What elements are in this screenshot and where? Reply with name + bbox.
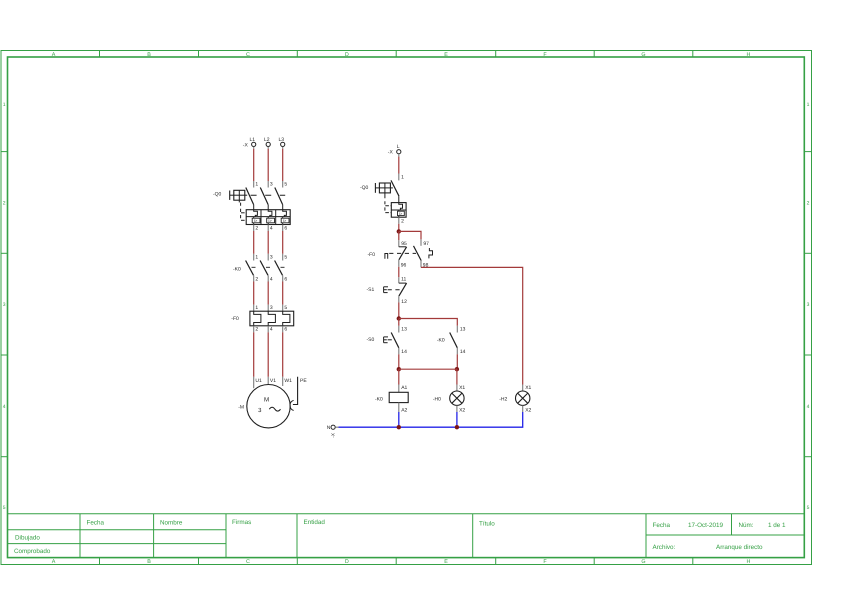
contactor coil -K0 (389, 392, 408, 402)
svg-text:1: 1 (255, 254, 258, 260)
wire -H0 X2 to N rail (456, 405, 458, 427)
wire -S1 12 to node B (398, 302, 400, 318)
contactor -K0 pin labels 2,4,6 (255, 277, 287, 283)
wire -K0 pin 6 to -F0 pin 5 (282, 275, 284, 311)
-S0 pushbutton actuator E (384, 337, 395, 343)
svg-text:4: 4 (270, 326, 273, 332)
svg-text:2: 2 (401, 219, 404, 225)
node D junction dot (455, 367, 459, 371)
svg-text:-S1: -S1 (367, 287, 375, 293)
svg-text:Arranque directo: Arranque directo (716, 544, 763, 551)
svg-text:-H2: -H2 (499, 397, 507, 403)
svg-text:14: 14 (460, 349, 466, 355)
svg-text:4: 4 (3, 404, 6, 410)
breaker -Q0 pole 3 contact blade (275, 188, 283, 210)
wire -K0 14 to node D (456, 354, 458, 369)
svg-text:H: H (747, 559, 751, 565)
wire -F0 96 to -S1 11 (398, 267, 400, 283)
svg-text:D: D (345, 52, 349, 58)
svg-text:-K0: -K0 (233, 266, 241, 272)
svg-text:N: N (327, 425, 331, 431)
svg-text:E: E (444, 559, 448, 565)
terminal -X L1 (250, 137, 256, 149)
wire node A to -F0 pin 95 (398, 231, 400, 240)
svg-text:Firmas: Firmas (232, 519, 251, 526)
node E junction dot (coil on N rail) (397, 425, 401, 429)
svg-text:1: 1 (255, 305, 258, 311)
svg-text:-Q0: -Q0 (360, 185, 369, 191)
svg-text:3: 3 (270, 254, 273, 260)
breaker -Q0 pin labels 1,3,5 (255, 182, 287, 188)
wire coil A2 to N rail (398, 403, 400, 428)
svg-text:-F0: -F0 (231, 316, 239, 322)
terminal -X L (control) (397, 144, 401, 157)
svg-text:2: 2 (807, 201, 810, 207)
svg-text:2: 2 (255, 226, 258, 232)
svg-text:4: 4 (807, 404, 810, 410)
svg-text:5: 5 (3, 505, 6, 511)
svg-text:-S0: -S0 (367, 337, 375, 343)
svg-text:X2: X2 (459, 408, 465, 414)
motor lead stubs U1 V1 W1 (254, 377, 283, 388)
contactor -K0 pole 3 contact (275, 261, 285, 276)
breaker -Q0 pole 1 contact blade (246, 188, 254, 210)
-F0 NC contact 95-96 (399, 240, 407, 267)
svg-text:X1: X1 (459, 385, 465, 391)
-K0 auxiliary contact 13-14 (NO) (450, 326, 458, 355)
wire -K0 pin 4 to -F0 pin 3 (267, 275, 269, 311)
wire -F0 pin 6 to motor (282, 326, 284, 377)
svg-text:3: 3 (807, 302, 810, 308)
svg-text:2: 2 (3, 201, 6, 207)
svg-text:2: 2 (255, 326, 258, 332)
wire -F0 98 to lamp -H2 X1 (421, 267, 523, 391)
terminal -X N (neutral) (331, 425, 339, 429)
svg-text:3: 3 (270, 182, 273, 188)
svg-text:C: C (246, 52, 250, 58)
svg-text:3: 3 (3, 302, 6, 308)
svg-text:V1: V1 (270, 378, 276, 384)
breaker -Q0 actuator (handle + cross box) (230, 190, 245, 202)
wire -S0 14 to node C (398, 354, 400, 369)
-F0 NO contact 97-98 (414, 239, 422, 267)
svg-text:D: D (345, 559, 349, 565)
node A junction dot (397, 229, 401, 233)
wire -F0 pin 2 to motor (253, 326, 255, 377)
svg-text:-F0: -F0 (368, 252, 376, 258)
wire -Q0 pin 2 to node A (398, 217, 400, 231)
svg-text:96: 96 (401, 263, 407, 269)
contactor -K0 pole 2 contact (260, 261, 270, 276)
svg-text:Dibujado: Dibujado (15, 535, 40, 542)
wire node D to lamp -H0 X1 (456, 369, 458, 391)
overload relay -F0 (thermal elements) (250, 311, 294, 326)
svg-text:M: M (264, 397, 269, 404)
-F0 thermal symbol and dashed link (385, 253, 416, 258)
overload relay -F0 pin labels 2,4,6 (255, 326, 287, 332)
svg-text:Título: Título (479, 521, 495, 528)
breaker -Q0 (control) mechanical link dashed (385, 188, 393, 213)
wire node C to coil A1 (398, 369, 400, 392)
breaker -Q0 (control) contact blade (391, 180, 399, 202)
wire L2 to -Q0 pin 3 (267, 149, 269, 188)
node B junction dot (397, 316, 401, 320)
svg-text:L: L (397, 144, 400, 150)
svg-text:E: E (444, 52, 448, 58)
svg-text:-H0: -H0 (433, 397, 441, 403)
svg-text:97: 97 (423, 241, 429, 247)
svg-text:C: C (246, 559, 250, 565)
svg-text:1: 1 (3, 102, 6, 108)
svg-text:A: A (52, 52, 56, 58)
svg-text:L2: L2 (264, 137, 270, 143)
terminal -X L2 (264, 137, 270, 149)
svg-text:17-Oct-2019: 17-Oct-2019 (688, 522, 723, 529)
wire node A to -F0 pin 97 (399, 231, 421, 239)
svg-text:13: 13 (460, 326, 466, 332)
-S1 pushbutton actuator E (384, 287, 403, 293)
svg-text:X2: X2 (525, 408, 531, 414)
breaker -Q0 mechanical link (dashed) (241, 195, 286, 220)
wire -Q0 pin 4 to -K0 pin 3 (267, 225, 269, 261)
indicator lamp -H2 (516, 391, 530, 405)
svg-text:5: 5 (284, 182, 287, 188)
breaker -Q0 (control) release box (391, 203, 406, 218)
breaker -Q0 (control) actuator (375, 183, 390, 195)
svg-text:A1: A1 (401, 385, 407, 391)
svg-text:11: 11 (401, 277, 406, 283)
svg-text:1: 1 (255, 182, 258, 188)
title block (8, 514, 805, 558)
svg-text:13: 13 (401, 326, 407, 332)
svg-text:2: 2 (255, 277, 258, 283)
svg-text:X1: X1 (525, 385, 531, 391)
svg-text:-Q0: -Q0 (213, 191, 222, 197)
terminal -X L3 (279, 137, 285, 149)
wire node C to node D (399, 368, 458, 370)
svg-text:-X: -X (243, 142, 249, 148)
breaker -Q0 release box (thermal + magnetic trips) (246, 210, 290, 225)
indicator lamp -H0 (450, 391, 464, 405)
svg-text:Comprobado: Comprobado (14, 548, 51, 555)
svg-text:14: 14 (401, 349, 407, 355)
svg-text:U1: U1 (255, 378, 262, 384)
svg-text:-X: -X (331, 433, 336, 438)
svg-text:G: G (641, 52, 645, 58)
wire node B down to -S0 13 (398, 319, 400, 333)
wire L1 to -Q0 pin 1 (253, 149, 255, 188)
svg-text:A: A (52, 559, 56, 565)
contactor -K0 pole 1 contact (246, 261, 256, 276)
svg-text:Nombre: Nombre (160, 520, 183, 527)
svg-text:PE: PE (300, 378, 307, 384)
svg-text:H: H (747, 52, 751, 58)
svg-text:W1: W1 (284, 378, 292, 384)
svg-text:Fecha: Fecha (87, 520, 105, 527)
-F0 trip marker (staircase) (429, 248, 433, 258)
wire node B to -K0 13 (branch right) (399, 319, 458, 326)
svg-text:-K0: -K0 (375, 397, 383, 403)
svg-text:B: B (147, 52, 151, 58)
wire L to -Q0 pin 1 (control) (398, 157, 400, 181)
svg-text:Archivo:: Archivo: (653, 544, 676, 551)
wire -F0 pin 4 to motor (267, 326, 269, 377)
-F0 pin labels 95, 97 (401, 241, 429, 247)
breaker -Q0 pin labels 2,4,6 (255, 226, 287, 232)
svg-text:A2: A2 (401, 408, 407, 414)
svg-text:5: 5 (284, 254, 287, 260)
wire -K0 pin 2 to -F0 pin 1 (253, 275, 255, 311)
svg-text:-K0: -K0 (437, 338, 445, 344)
breaker -Q0 pole 2 contact blade (260, 188, 268, 210)
svg-text:12: 12 (401, 299, 407, 305)
svg-text:3: 3 (270, 305, 273, 311)
svg-text:5: 5 (807, 505, 810, 511)
wire L3 to -Q0 pin 5 (282, 149, 284, 188)
svg-text:1: 1 (807, 102, 810, 108)
svg-text:Núm:: Núm: (739, 522, 754, 529)
svg-text:-X: -X (388, 149, 394, 155)
node F junction dot (-H0 on N rail) (455, 425, 459, 429)
svg-text:4: 4 (270, 226, 273, 232)
start button -S0 (NO) (391, 333, 399, 355)
motor -M (M 3~) (247, 385, 290, 428)
svg-text:B: B (147, 559, 151, 565)
svg-text:1: 1 (401, 174, 404, 180)
contactor -K0 pin labels 1,3,5 (255, 254, 287, 260)
svg-text:Fecha: Fecha (653, 522, 671, 529)
svg-text:6: 6 (284, 326, 287, 332)
svg-text:G: G (641, 559, 645, 565)
wire -Q0 pin 2 to -K0 pin 1 (253, 225, 255, 261)
svg-text:6: 6 (284, 277, 287, 283)
svg-text:L3: L3 (279, 137, 285, 143)
svg-text:5: 5 (284, 305, 287, 311)
svg-text:-M: -M (238, 404, 244, 410)
overload relay -F0 pin labels 1,3,5 (255, 305, 287, 311)
node C junction dot (397, 367, 401, 371)
motor terminal labels U1 V1 W1 (255, 378, 292, 384)
svg-text:Entidad: Entidad (304, 519, 326, 526)
stop button -S1 (NC) (399, 283, 407, 302)
wire -Q0 pin 6 to -K0 pin 5 (282, 225, 284, 261)
svg-text:4: 4 (270, 277, 273, 283)
PE conductor (290, 377, 298, 411)
svg-text:1 de 1: 1 de 1 (768, 522, 786, 529)
svg-text:6: 6 (284, 226, 287, 232)
wire -H2 X2 to N rail corner (339, 405, 523, 427)
-F0 pin labels 96, 98 (401, 263, 429, 269)
svg-text:L1: L1 (250, 137, 256, 143)
